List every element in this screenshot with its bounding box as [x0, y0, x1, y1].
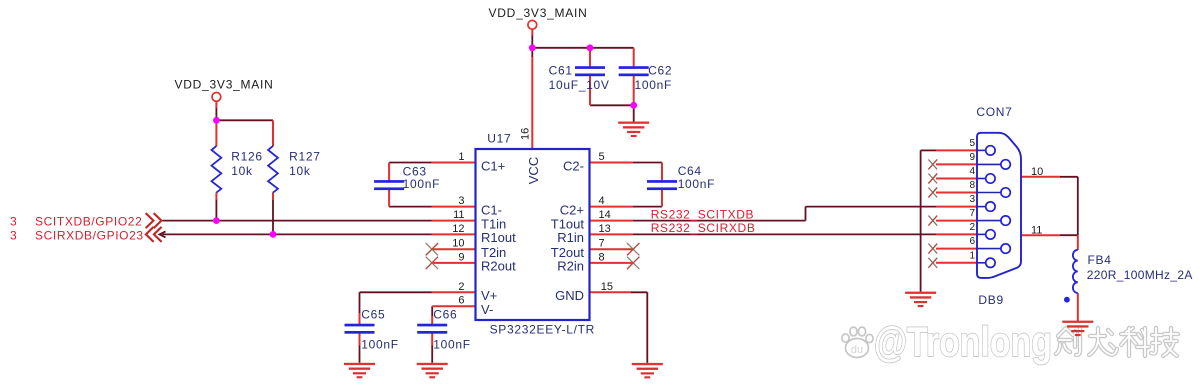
svg-text:6: 6 [969, 236, 975, 247]
svg-text:RS232_SCITXDB: RS232_SCITXDB [651, 207, 754, 221]
svg-text:15: 15 [601, 281, 613, 293]
svg-text:7: 7 [969, 208, 975, 219]
svg-text:16: 16 [520, 128, 532, 140]
svg-text:SCIRXDB/GPIO23: SCIRXDB/GPIO23 [35, 229, 144, 243]
svg-text:11: 11 [1031, 224, 1042, 236]
svg-text:1: 1 [458, 151, 464, 163]
svg-text:RS232_SCIRXDB: RS232_SCIRXDB [651, 221, 756, 235]
svg-text:100nF: 100nF [678, 177, 716, 191]
svg-text:3: 3 [10, 229, 17, 243]
svg-text:SP3232EEY-L/TR: SP3232EEY-L/TR [490, 322, 595, 336]
svg-text:R1out: R1out [481, 230, 516, 245]
svg-text:13: 13 [599, 223, 611, 235]
svg-text:10uF_10V: 10uF_10V [549, 78, 610, 92]
svg-text:R2out: R2out [481, 259, 516, 274]
svg-text:10k: 10k [231, 164, 253, 178]
svg-text:R1in: R1in [557, 230, 584, 245]
svg-text:6: 6 [458, 295, 464, 307]
svg-text:3: 3 [969, 194, 975, 205]
svg-text:R2in: R2in [557, 259, 584, 274]
svg-text:10k: 10k [289, 164, 311, 178]
svg-text:R127: R127 [289, 150, 321, 164]
svg-text:12: 12 [452, 223, 464, 235]
svg-text:VCC: VCC [526, 157, 541, 184]
svg-text:R126: R126 [231, 150, 262, 164]
svg-text:4: 4 [969, 166, 975, 177]
svg-text:2: 2 [458, 281, 464, 293]
svg-text:CON7: CON7 [976, 105, 1012, 119]
svg-text:9: 9 [458, 251, 464, 263]
svg-text:DB9: DB9 [978, 293, 1003, 307]
svg-text:V+: V+ [481, 288, 497, 303]
svg-text:T1out: T1out [551, 216, 585, 231]
svg-text:5: 5 [599, 151, 605, 163]
svg-text:U17: U17 [487, 132, 511, 146]
svg-text:C2+: C2+ [560, 202, 584, 217]
svg-text:8: 8 [969, 180, 975, 191]
svg-text:@Tronlong: @Tronlong [874, 318, 1052, 365]
svg-text:14: 14 [599, 209, 611, 221]
svg-text:SCITXDB/GPIO22: SCITXDB/GPIO22 [35, 215, 142, 229]
svg-text:C62: C62 [648, 64, 672, 78]
svg-text:8: 8 [599, 251, 605, 263]
svg-text:C64: C64 [678, 164, 702, 178]
svg-text:100nF: 100nF [635, 78, 673, 92]
svg-text:10: 10 [1031, 166, 1043, 178]
svg-text:VDD_3V3_MAIN: VDD_3V3_MAIN [489, 6, 588, 20]
svg-text:FB4: FB4 [1088, 253, 1112, 267]
svg-text:C2-: C2- [563, 158, 584, 173]
svg-text:C61: C61 [549, 64, 573, 78]
svg-text:C1+: C1+ [481, 158, 505, 173]
svg-text:C65: C65 [361, 307, 385, 321]
svg-text:GND: GND [555, 288, 584, 303]
svg-text:3: 3 [10, 215, 17, 229]
svg-text:4: 4 [599, 195, 605, 207]
svg-text:V-: V- [481, 302, 493, 317]
svg-text:9: 9 [969, 152, 975, 163]
svg-text:100nF: 100nF [361, 337, 399, 351]
svg-text:100nF: 100nF [403, 177, 441, 191]
svg-text:220R_100MHz_2A: 220R_100MHz_2A [1087, 268, 1193, 282]
svg-text:C1-: C1- [481, 202, 502, 217]
svg-text:2: 2 [969, 222, 975, 233]
svg-text:1: 1 [969, 250, 975, 261]
svg-text:10: 10 [452, 238, 464, 250]
svg-text:5: 5 [969, 138, 975, 149]
svg-text:100nF: 100nF [433, 337, 471, 351]
svg-text:3: 3 [458, 195, 464, 207]
svg-text:T1in: T1in [481, 216, 506, 231]
svg-text:11: 11 [453, 209, 464, 221]
svg-text:C66: C66 [433, 307, 457, 321]
svg-text:VDD_3V3_MAIN: VDD_3V3_MAIN [175, 78, 274, 92]
svg-text:du: du [851, 344, 863, 356]
svg-text:7: 7 [599, 238, 605, 250]
